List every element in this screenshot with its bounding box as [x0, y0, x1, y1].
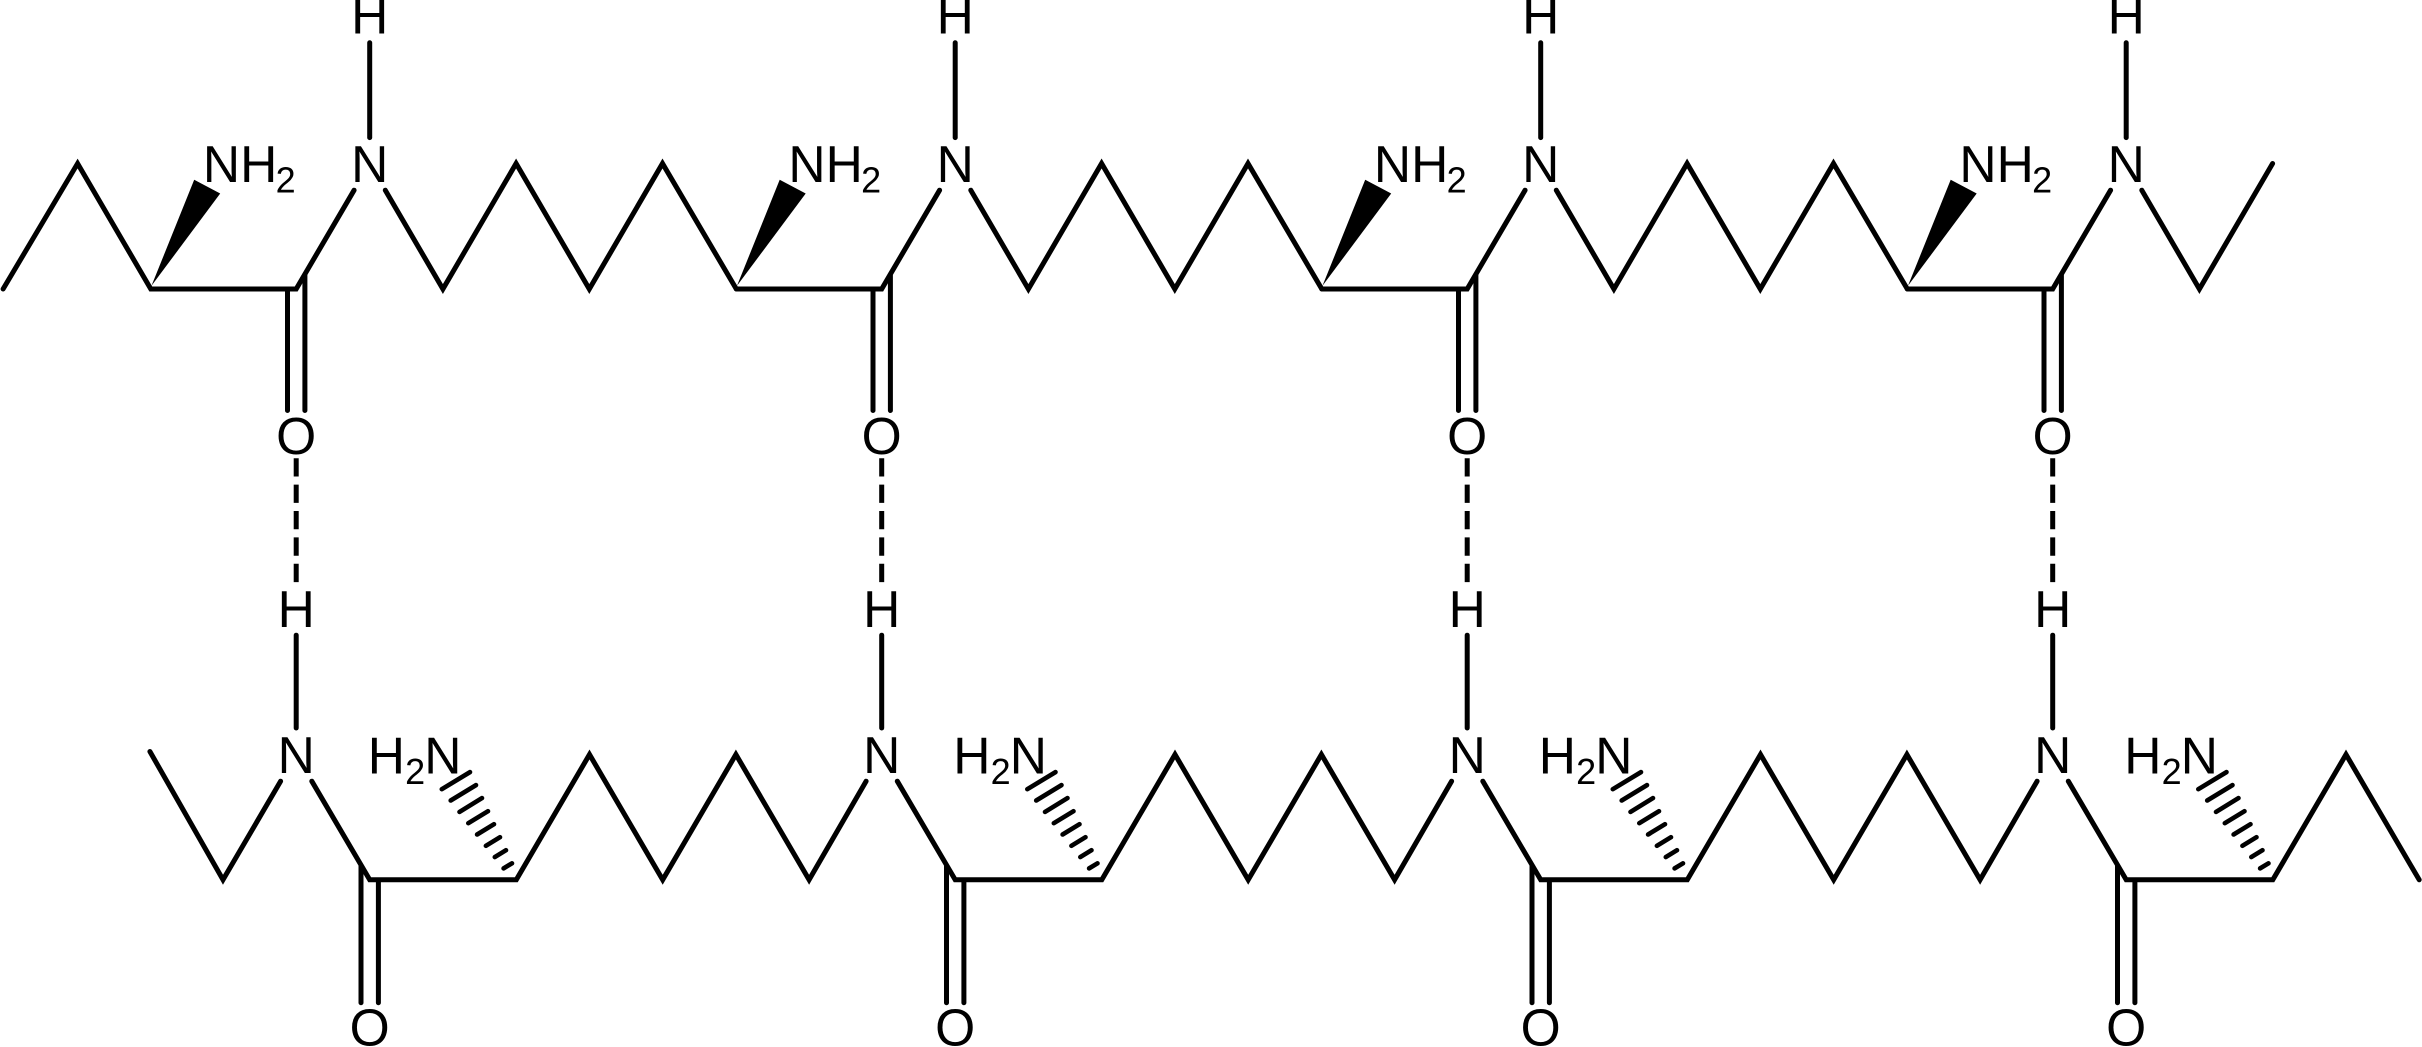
svg-text:N: N	[863, 726, 900, 784]
double bond C=O (top, unit 4)	[2044, 276, 2061, 411]
bond N-H (top amide, unit 1)	[367, 43, 372, 138]
svg-text:O: O	[1447, 407, 1487, 465]
bond N-H (top amide, unit 4)	[2124, 43, 2129, 138]
svg-text:H: H	[2108, 0, 2145, 45]
svg-text:2: 2	[1447, 159, 1467, 200]
solid wedge bond Calpha-NH2 (top, unit 1)	[152, 180, 221, 286]
svg-text:H: H	[1522, 0, 1559, 45]
svg-text:O: O	[862, 407, 902, 465]
double bond C=O (bottom, unit 3)	[1532, 866, 1549, 1003]
hashed wedge bond Calpha-NH2 (bottom, unit 2)	[1027, 772, 1097, 868]
svg-text:2: 2	[2032, 159, 2052, 200]
double bond C=O (top, unit 2)	[873, 276, 890, 411]
svg-text:H: H	[278, 580, 315, 638]
svg-text:N: N	[2034, 726, 2071, 784]
solid wedge bond Calpha-NH2 (top, unit 4)	[1908, 180, 1977, 286]
svg-text:N: N	[1522, 135, 1559, 193]
svg-text:2: 2	[861, 159, 881, 200]
double bond C=O (bottom, unit 1)	[361, 866, 378, 1003]
svg-text:H: H	[2034, 580, 2071, 638]
hashed wedge bond Calpha-NH2 (bottom, unit 1)	[442, 772, 512, 868]
svg-text:H: H	[937, 0, 974, 45]
hydrogen bond O---H (dashed, column 2)	[879, 458, 884, 584]
wire: top chain unit 2: Calpha-C(=O) bond and C-N bond	[736, 190, 939, 289]
wire: top chain unit 2: N-(CH2)4 zigzag to next Calpha	[971, 164, 1322, 290]
svg-text:2: 2	[276, 159, 296, 200]
svg-text:N: N	[351, 135, 388, 193]
svg-text:N: N	[278, 726, 315, 784]
bond H-N (bottom amide, column 1)	[294, 635, 299, 728]
svg-text:O: O	[2106, 999, 2146, 1047]
hydrogen bond O---H (dashed, column 1)	[294, 458, 299, 584]
wire: top chain terminal ethyl (right end)	[2142, 164, 2273, 290]
svg-text:NH: NH	[1374, 135, 1448, 193]
bond H-N (bottom amide, column 4)	[2050, 635, 2055, 728]
wire: bottom chain unit 3: N-C(=O), C-Calpha and (CH2)4 zigzag to next N	[1483, 755, 2037, 880]
double bond C=O (top, unit 1)	[288, 276, 305, 411]
bond H-N (bottom amide, column 3)	[1465, 635, 1470, 728]
svg-text:O: O	[276, 407, 316, 465]
solid wedge bond Calpha-NH2 (top, unit 3)	[1323, 180, 1392, 286]
svg-text:N: N	[937, 135, 974, 193]
svg-text:H: H	[863, 580, 900, 638]
bond H-N (bottom amide, column 2)	[879, 635, 884, 728]
hashed wedge bond Calpha-NH2 (bottom, unit 3)	[1613, 772, 1683, 868]
svg-text:NH: NH	[1959, 135, 2033, 193]
svg-text:N: N	[1449, 726, 1486, 784]
svg-text:2: 2	[991, 751, 1011, 792]
solid wedge bond Calpha-NH2 (top, unit 2)	[737, 180, 806, 286]
svg-text:H: H	[351, 0, 388, 45]
svg-text:H: H	[2124, 727, 2161, 785]
bond N-H (top amide, unit 3)	[1538, 43, 1543, 138]
hydrogen bond O---H (dashed, column 3)	[1465, 458, 1470, 584]
wire: top chain unit 3: N-(CH2)4 zigzag to next Calpha	[1556, 164, 1907, 290]
svg-text:N: N	[2181, 727, 2218, 785]
double bond C=O (bottom, unit 2)	[947, 866, 964, 1003]
wire: top chain unit 3: Calpha-C(=O) bond and C-N bond	[1322, 190, 1525, 289]
svg-text:O: O	[1521, 999, 1561, 1047]
wire: top chain unit 1: N-(CH2)4 zigzag to next Calpha	[385, 164, 736, 290]
svg-text:N: N	[424, 727, 461, 785]
svg-text:N: N	[1595, 727, 1632, 785]
wire: top chain unit 4: Calpha-C(=O) bond and C-N bond	[1907, 190, 2110, 289]
svg-text:H: H	[368, 727, 405, 785]
svg-text:NH: NH	[203, 135, 277, 193]
svg-text:2: 2	[1576, 751, 1596, 792]
wire: bottom chain terminal ethyl (left end)	[150, 752, 281, 880]
bond N-H (top amide, unit 2)	[953, 43, 958, 138]
wire: bottom chain unit 2: N-C(=O), C-Calpha and (CH2)4 zigzag to next N	[897, 755, 1451, 880]
svg-text:H: H	[953, 727, 990, 785]
svg-text:O: O	[350, 999, 390, 1047]
svg-text:2: 2	[405, 751, 425, 792]
svg-text:N: N	[1010, 727, 1047, 785]
svg-text:2: 2	[2162, 751, 2182, 792]
hashed wedge bond Calpha-NH2 (bottom, unit 4)	[2198, 772, 2268, 868]
double bond C=O (bottom, unit 4)	[2118, 866, 2135, 1003]
svg-text:H: H	[1539, 727, 1576, 785]
hydrogen bond O---H (dashed, column 4)	[2050, 458, 2055, 584]
wire: bottom chain unit 4: N-C(=O), C-Calpha and terminal chain to right edge	[2068, 755, 2419, 880]
wire: top chain unit 1: Calpha-C(=O) bond and C-N bond	[3, 164, 354, 290]
svg-text:NH: NH	[788, 135, 862, 193]
wire: bottom chain unit 1: N-C(=O), C-Calpha and (CH2)4 zigzag to next N	[312, 755, 866, 880]
svg-text:O: O	[2033, 407, 2073, 465]
svg-text:H: H	[1449, 580, 1486, 638]
double bond C=O (top, unit 3)	[1459, 276, 1476, 411]
svg-text:N: N	[2108, 135, 2145, 193]
svg-text:O: O	[935, 999, 975, 1047]
